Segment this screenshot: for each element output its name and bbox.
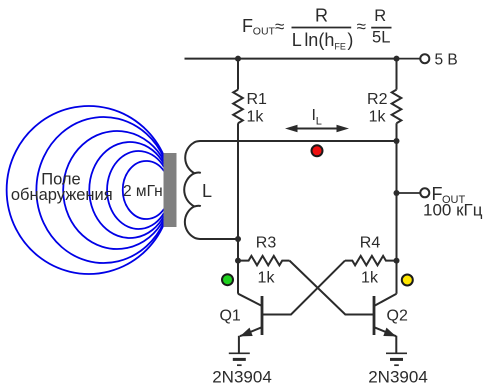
svg-text:2N3904: 2N3904	[212, 368, 272, 387]
svg-text:1k: 1k	[247, 108, 265, 125]
ground Q2	[386, 353, 407, 365]
fraction bar 1	[292, 27, 352, 29]
terminal FOUT	[420, 188, 429, 197]
resistor R4	[345, 256, 397, 265]
node: coil bottom / left branch	[235, 236, 241, 242]
LED red indicator	[312, 145, 323, 156]
field line 4	[89, 142, 164, 238]
node: FOUT junction	[394, 190, 400, 196]
Q1 base bar	[261, 296, 264, 335]
svg-text:≈: ≈	[275, 17, 284, 36]
resistor R2	[392, 90, 402, 124]
svg-text:R: R	[374, 7, 386, 25]
formula F_OUT approx R/(L ln(hFE)) approx R/(5L)	[242, 6, 390, 52]
transistor Q1	[238, 294, 262, 354]
svg-text:5L: 5L	[372, 29, 390, 47]
field line 1 (outer)	[7, 106, 164, 274]
svg-text:1k: 1k	[258, 270, 276, 287]
svg-text:2 мГн: 2 мГн	[123, 183, 163, 200]
svg-text:R: R	[315, 6, 328, 26]
field line 2	[36, 117, 164, 263]
node: R3 left junction	[235, 258, 241, 264]
resistor R3	[238, 256, 290, 265]
svg-text:L: L	[316, 116, 322, 128]
field line 6 (inner)	[123, 161, 164, 219]
field line 5	[107, 151, 164, 229]
svg-text:100 кГц: 100 кГц	[423, 201, 483, 220]
node: rail/R2 junction	[394, 56, 400, 62]
svg-text:R1: R1	[247, 91, 268, 108]
ground Q1	[229, 353, 250, 365]
wire: R3 to Q2 base (cross)	[290, 261, 375, 315]
svg-text:5 В: 5 В	[435, 51, 458, 68]
svg-text:2N3904: 2N3904	[368, 368, 428, 387]
terminal 5V	[420, 54, 429, 63]
label L	[202, 181, 212, 201]
coil cusp tail upper	[194, 172, 201, 175]
node: coil top / right branch	[394, 138, 400, 144]
inductor L with leads	[184, 141, 396, 239]
node: R4 right junction	[394, 258, 400, 264]
svg-text:Q2: Q2	[387, 308, 408, 325]
arrow IL double-headed	[295, 128, 339, 130]
fraction bar 2	[371, 27, 391, 29]
svg-text:F: F	[242, 16, 253, 36]
Q1 collector	[238, 294, 262, 306]
Q2 base bar	[373, 296, 376, 335]
resistor R1	[233, 90, 243, 124]
wire: +5V top rail	[185, 58, 397, 60]
svg-text:Lln(hFE): Lln(hFE)	[292, 30, 354, 52]
transistor Q2	[374, 294, 397, 354]
wire: right branch vertical	[396, 123, 398, 294]
svg-text:R2: R2	[367, 91, 388, 108]
svg-text:1k: 1k	[361, 270, 379, 287]
wire: FOUT stub	[397, 192, 421, 194]
coil core bar	[164, 153, 177, 227]
svg-text:≈: ≈	[357, 17, 366, 36]
LED yellow indicator	[402, 275, 413, 286]
svg-text:R4: R4	[360, 235, 381, 252]
wire: R2 top lead	[396, 59, 398, 90]
svg-text:L: L	[202, 181, 212, 201]
Q1 emitter	[240, 327, 262, 336]
svg-text:Q1: Q1	[219, 308, 240, 325]
svg-text:обнаружения: обнаружения	[11, 186, 113, 204]
wire: R1 top lead	[237, 59, 239, 90]
wire: left branch vertical	[237, 123, 239, 294]
svg-text:R3: R3	[256, 235, 277, 252]
label detection field	[11, 171, 163, 205]
Q2 emitter	[374, 327, 396, 336]
wire: R4 to Q1 base (cross)	[262, 261, 345, 315]
node: rail/R1 junction	[235, 56, 241, 62]
svg-text:1k: 1k	[369, 108, 387, 125]
current label IL	[312, 107, 322, 128]
Q2 collector	[374, 294, 397, 306]
svg-text:OUT: OUT	[253, 26, 276, 38]
LED green indicator	[222, 274, 233, 285]
coil cusp tail lower	[194, 205, 201, 208]
field line 3	[63, 131, 164, 249]
wire: rail to 5V terminal	[397, 58, 421, 60]
